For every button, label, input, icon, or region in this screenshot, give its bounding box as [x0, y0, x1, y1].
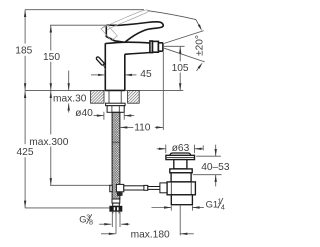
dimension line 150/max300 vertical	[50, 25, 52, 185]
dimension G114	[152, 206, 204, 211]
dimension G38	[99, 212, 129, 227]
shank through deck	[109, 90, 121, 103]
svg-text:±20°: ±20°	[195, 35, 206, 56]
label G114	[206, 196, 225, 211]
dimension 40-53	[193, 145, 222, 187]
aerator	[150, 41, 163, 53]
rod housing cap	[160, 183, 167, 193]
drain tail pipe	[171, 195, 192, 205]
drain tee body	[167, 182, 195, 195]
pop-up knob lever	[96, 56, 106, 70]
label G38	[79, 212, 93, 226]
wire spray lower	[164, 48, 205, 62]
wire extension line 150-top	[50, 24, 106, 26]
threaded supply tube	[112, 112, 120, 199]
svg-text:110: 110	[134, 122, 151, 133]
svg-text:40–53: 40–53	[201, 162, 230, 173]
faucet spout	[105, 42, 150, 54]
angle leader lower	[197, 62, 203, 71]
dimension max180	[101, 233, 194, 235]
svg-text:G1: G1	[206, 199, 219, 210]
dimension 110	[120, 52, 163, 130]
svg-text:max.300: max.300	[29, 137, 68, 148]
phantom handle root	[101, 25, 117, 41]
supply collar	[112, 199, 120, 203]
svg-text:8: 8	[89, 218, 93, 227]
drain cap	[170, 153, 191, 155]
wire spray upper	[164, 31, 204, 44]
dimension max.30 vertical	[68, 71, 70, 113]
drain gasket ring	[170, 169, 192, 173]
svg-text:max.30: max.30	[53, 94, 87, 105]
wire drain axis extension	[179, 205, 181, 236]
svg-text:ø63: ø63	[172, 143, 190, 154]
drain neck	[174, 160, 187, 169]
dimension 105 vertical	[179, 47, 181, 91]
wire 425-bottom extension line	[25, 207, 110, 209]
dimension o40	[94, 112, 135, 120]
svg-text:150: 150	[43, 52, 60, 63]
phantom lever raised	[101, 10, 148, 30]
svg-text:4: 4	[221, 202, 225, 211]
wire extension line 185-top	[25, 9, 144, 11]
wire max300-bottom extension line	[50, 184, 110, 186]
horizontal pop-up rod	[124, 185, 160, 190]
angle leader upper	[148, 11, 202, 31]
drain flange	[166, 155, 195, 159]
svg-text:ø40: ø40	[75, 108, 93, 119]
svg-text:425: 425	[17, 147, 34, 158]
dimension o63	[157, 145, 204, 154]
rod clamp at supply	[110, 184, 124, 195]
faucet handle lever solid	[106, 22, 163, 42]
svg-text:45: 45	[140, 69, 152, 80]
dimension line 185/425 vertical	[24, 10, 26, 208]
mounting nut	[107, 106, 124, 113]
faucet body outline	[105, 43, 125, 90]
svg-text:185: 185	[15, 46, 32, 57]
dimension 45 body width	[91, 74, 137, 76]
deck slab hatched	[91, 91, 140, 104]
supply tip stub	[113, 211, 119, 213]
drain upper body	[171, 173, 191, 182]
svg-text:max.180: max.180	[131, 230, 170, 241]
G38 fitting nut	[110, 206, 122, 211]
svg-text:105: 105	[172, 63, 189, 74]
wire spray axis	[164, 45, 185, 47]
wire deck-top extension line	[25, 90, 183, 92]
supply neck	[113, 203, 120, 206]
washer below deck	[106, 103, 126, 106]
wire faucet axis extension	[115, 212, 117, 234]
